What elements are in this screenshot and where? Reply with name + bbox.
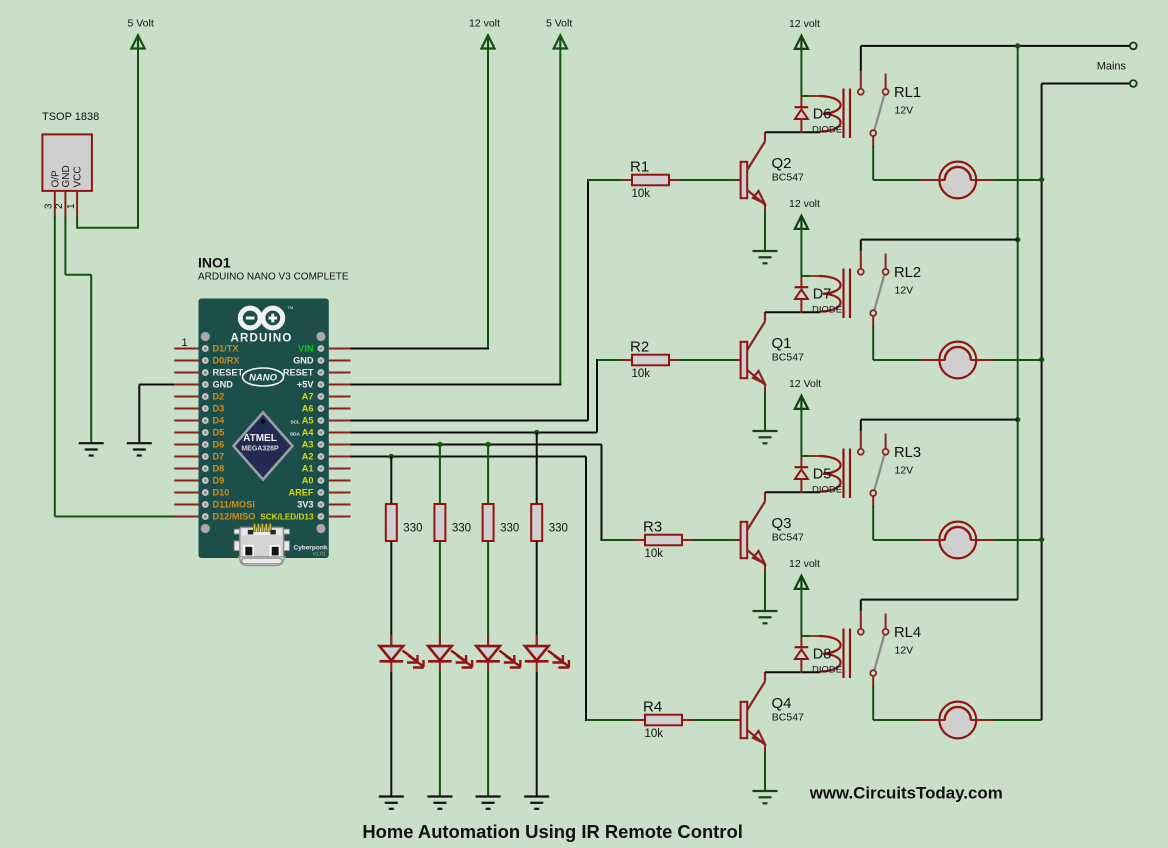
svg-text:D1/TX: D1/TX [213,344,240,354]
svg-text:10k: 10k [632,368,651,380]
svg-text:12 volt: 12 volt [789,558,820,570]
svg-text:RL4: RL4 [894,625,921,641]
svg-text:A4: A4 [302,428,315,438]
svg-text:330: 330 [549,523,568,535]
svg-text:R3: R3 [643,519,662,536]
svg-text:RL3: RL3 [894,445,921,461]
svg-text:v1.01: v1.01 [313,552,326,558]
svg-text:1: 1 [182,337,188,349]
svg-text:A3: A3 [302,440,314,450]
svg-text:D3: D3 [213,404,225,414]
svg-text:ARDUINO: ARDUINO [230,333,292,345]
svg-text:D12/MISO: D12/MISO [213,512,256,522]
svg-text:3V3: 3V3 [297,500,313,510]
svg-text:GND: GND [293,356,314,366]
svg-text:5 Volt: 5 Volt [128,18,154,30]
svg-text:D5: D5 [213,428,225,438]
svg-text:12V: 12V [895,465,914,477]
svg-text:12 volt: 12 volt [469,18,500,30]
svg-text:A7: A7 [302,392,314,402]
svg-text:VIN: VIN [298,344,314,354]
svg-text:RESET: RESET [283,368,314,378]
svg-text:BC547: BC547 [772,712,804,724]
svg-text:SCK/LED/D13: SCK/LED/D13 [260,513,314,522]
svg-text:5 Volt: 5 Volt [546,18,572,30]
svg-text:D6: D6 [813,106,832,122]
svg-text:R4: R4 [643,699,662,716]
svg-text:D7: D7 [813,286,832,302]
svg-text:A5: A5 [302,416,314,426]
svg-text:D6: D6 [213,440,225,450]
svg-text:GND: GND [61,165,72,187]
svg-text:R1: R1 [630,159,649,176]
svg-text:12V: 12V [895,285,914,297]
svg-text:D0/RX: D0/RX [213,356,241,366]
svg-text:MEGA328P: MEGA328P [241,446,279,453]
svg-text:DIODE: DIODE [812,485,842,496]
svg-text:www.CircuitsToday.com: www.CircuitsToday.com [809,784,1003,803]
svg-text:A2: A2 [302,452,314,462]
svg-text:10k: 10k [645,728,664,740]
svg-text:12 Volt: 12 Volt [789,378,821,390]
svg-text:BC547: BC547 [772,532,804,544]
svg-text:Mains: Mains [1097,61,1127,73]
svg-text:10k: 10k [632,188,651,200]
svg-text:+5V: +5V [297,380,314,390]
svg-text:TSOP 1838: TSOP 1838 [42,111,99,123]
svg-text:330: 330 [403,523,422,535]
svg-text:1: 1 [66,203,77,209]
svg-text:3: 3 [44,203,55,209]
svg-text:D10: D10 [213,488,230,498]
svg-text:D8: D8 [813,646,832,662]
svg-text:Q4: Q4 [772,695,792,712]
svg-text:Q3: Q3 [772,515,792,532]
svg-text:12V: 12V [895,645,914,657]
svg-text:ATMEL: ATMEL [243,433,277,444]
svg-text:D5: D5 [813,466,832,482]
svg-text:Q1: Q1 [772,335,792,352]
svg-text:12 volt: 12 volt [789,18,820,30]
svg-text:BC547: BC547 [772,352,804,364]
svg-text:RL2: RL2 [894,265,921,281]
svg-text:330: 330 [452,523,471,535]
svg-text:DIODE: DIODE [812,305,842,316]
svg-text:ARDUINO NANO V3 COMPLETE: ARDUINO NANO V3 COMPLETE [198,271,349,282]
svg-text:VCC: VCC [73,166,84,187]
svg-text:D4: D4 [213,416,226,426]
svg-text:12V: 12V [895,105,914,117]
svg-text:SCL: SCL [290,420,300,426]
svg-text:Cyberponk: Cyberponk [294,545,328,552]
svg-text:RESET: RESET [213,368,244,378]
svg-text:12 volt: 12 volt [789,198,820,210]
svg-text:O/P: O/P [50,170,61,188]
svg-text:A1: A1 [302,464,314,474]
svg-text:SDA: SDA [290,432,301,438]
svg-text:A0: A0 [302,476,314,486]
svg-text:D11/MOSI: D11/MOSI [213,500,255,510]
svg-text:D9: D9 [213,476,225,486]
svg-text:2: 2 [54,203,65,209]
svg-text:RL1: RL1 [894,85,921,101]
svg-text:D7: D7 [213,452,225,462]
svg-text:D8: D8 [213,464,225,474]
svg-text:INO1: INO1 [198,255,231,271]
svg-text:Q2: Q2 [772,155,792,172]
svg-text:AREF: AREF [288,488,313,498]
svg-text:330: 330 [500,523,519,535]
svg-text:10k: 10k [645,548,664,560]
svg-text:NANO: NANO [249,373,278,384]
svg-text:Home Automation Using IR Remot: Home Automation Using IR Remote Control [362,821,742,842]
svg-text:DIODE: DIODE [812,125,842,136]
svg-text:D2: D2 [213,392,225,402]
svg-text:A6: A6 [302,404,314,414]
svg-text:BC547: BC547 [772,172,804,184]
svg-text:GND: GND [213,380,234,390]
svg-text:TM: TM [288,305,294,310]
svg-text:DIODE: DIODE [812,665,842,676]
svg-text:R2: R2 [630,339,649,356]
